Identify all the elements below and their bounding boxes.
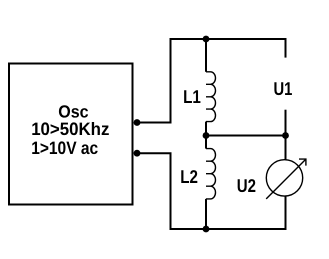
wire U1 upper stub: [285, 38, 287, 58]
inductor L1: [206, 72, 216, 122]
svg-text:U1: U1: [274, 78, 293, 99]
svg-text:10>50Khz: 10>50Khz: [31, 119, 109, 139]
svg-text:1>10V ac: 1>10V ac: [31, 138, 98, 158]
terminal dot upper output of Osc: [134, 119, 141, 126]
meter U2 body: [266, 160, 302, 196]
wire middle rail: [206, 135, 286, 137]
inductor L2: [206, 149, 216, 199]
wire U2 bottom lead: [285, 196, 287, 230]
junction top rail / L1: [203, 36, 210, 43]
wire bottom rail: [170, 228, 286, 230]
wire U2 top lead: [285, 136, 287, 160]
wire top rail: [170, 38, 286, 40]
svg-text:U2: U2: [237, 175, 256, 196]
terminal dot lower output of Osc: [134, 150, 141, 157]
meter U2 arrow head: [299, 159, 306, 166]
wire from Osc lower output down to bottom rail: [137, 153, 171, 229]
svg-text:L2: L2: [180, 166, 198, 187]
svg-text:L1: L1: [183, 86, 201, 107]
junction bottom rail / L2: [203, 226, 210, 233]
wire U1 lower stub to middle junction: [285, 110, 287, 136]
meter U2 arrow shaft: [266, 159, 306, 199]
junction middle rail / U1 U2: [282, 132, 289, 139]
junction middle rail / L1 L2: [203, 132, 210, 139]
wire top rail to L1 top: [205, 38, 207, 72]
oscillator box Osc: [9, 64, 133, 205]
wire L2 bottom to bottom rail: [205, 199, 207, 230]
wire L1 bottom to L2 top through middle junction: [205, 122, 207, 149]
wire from Osc upper output up to top rail: [137, 39, 171, 123]
